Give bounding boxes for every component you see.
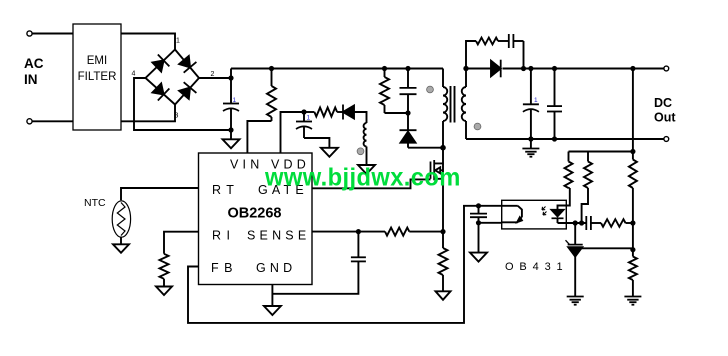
resistor R2 clamp [380,69,389,114]
svg-text:3: 3 [175,113,179,120]
wire bridge neg return [134,78,231,130]
wire D2 to aux winding [354,112,367,123]
wire opto emitter [479,222,502,224]
DC out terminal - [664,137,669,142]
U1 pin label RI [212,229,236,243]
diode D1 clamp [400,113,417,148]
node comp join [630,220,635,225]
U1 pin label RT [212,183,239,197]
U2 light arrows [542,207,547,216]
bridge pin 2 label [211,71,215,78]
wire divider riser [632,69,634,152]
label 1 (C3 pin) [307,115,311,122]
U1 pin label SENSE [247,229,310,243]
svg-text:2: 2 [211,71,215,78]
svg-text:GND: GND [256,261,296,275]
wire source down [442,179,444,232]
svg-text:O B 4 3 1: O B 4 3 1 [505,261,564,273]
node out cap1 bottom [528,136,533,141]
svg-text:www.bjjdwx.com: www.bjjdwx.com [264,164,461,192]
transistor Q1 MOSFET [431,148,444,181]
capacitor C3 vdd [296,112,312,138]
wire emitter to ground [478,223,480,253]
resistor R6 current sense [439,232,448,292]
wire clamp to drain [408,147,443,149]
wire R11 to cathode node [582,188,588,223]
U1 pin label GND [256,261,296,275]
node cathode a [573,220,578,225]
svg-text:IN: IN [24,72,38,87]
svg-text:1: 1 [307,115,311,122]
svg-text:RT: RT [212,183,239,197]
wire HV rail [231,68,443,70]
node bulk+ [228,75,233,80]
diode D2 vdd [343,105,354,120]
wire bulk node up to HV rail [230,69,232,79]
capacitor C5 snubber [509,34,524,48]
wire divider mid [632,223,634,250]
op IC U1 OB2268 box [199,153,313,285]
resistor R11 LED bleed [584,152,592,189]
DC out terminal + [664,66,669,71]
wire output return rail [466,138,664,140]
wire comp cap to R12 [591,222,601,224]
thermistor NTC [112,201,130,237]
wire snubber return [523,41,525,69]
resistor R9 lower divider [629,250,637,297]
svg-text:OB2268: OB2268 [227,206,281,222]
wire RT to NTC [121,188,199,200]
svg-text:RI: RI [212,229,236,243]
ground (aux) [358,165,375,174]
wire GND to sense cap [272,261,358,293]
T1 primary phase dot [427,86,434,93]
wire AC N to EMI [32,120,73,122]
U1 pin label FB [211,261,238,275]
AC input terminal L [27,31,32,36]
wire R1 to VIN [247,121,271,153]
node opto emitter [476,220,481,225]
wire bridge out to bulk node [199,77,231,79]
capacitor C7 output [547,69,562,140]
svg-text:DC: DC [654,96,672,110]
node opto collector [476,203,481,208]
svg-text:EMI: EMI [87,55,107,67]
node secondary top [463,66,468,71]
T1 core [451,86,455,123]
U1 pin label VIN [230,158,263,172]
resistor R5 sense series [385,228,409,236]
node clamp join [405,110,410,115]
resistor R1 startup [267,69,276,122]
node drain [440,145,446,151]
node out cap2 bottom [552,136,557,141]
wire secondary rail [503,68,664,70]
svg-text:FILTER: FILTER [78,71,117,83]
capacitor C8 opto [470,206,487,223]
svg-text:AC: AC [24,56,44,71]
wire VDD pin riser [281,112,305,153]
resistor R10 LED series [565,152,573,189]
wire aux to ground [366,147,368,166]
resistor R12 comp [601,219,633,227]
capacitor C9 comp [586,216,591,230]
node cathode b [579,220,584,225]
svg-text:4: 4 [132,71,136,78]
capacitor C1 bulk [223,80,239,131]
capacitor C6 output [523,69,539,140]
T1 aux phase dot [357,148,364,155]
wire RI [164,232,199,254]
label DC Out [654,96,676,125]
svg-text:1: 1 [534,97,538,104]
capacitor C2 clamp [400,69,417,114]
node startup tap [269,66,274,71]
watermark [264,164,461,192]
node clamp R top [382,66,387,71]
U1 name OB2268 [227,206,281,222]
resistor R3 vdd [304,108,343,117]
transformer T1 aux winding [364,123,367,147]
optocoupler U2 box [502,200,567,229]
wire opto collector [463,205,502,207]
node VDD cap top [301,109,306,114]
wire 431 ref [581,247,633,249]
EMI filter block [73,24,121,130]
resistor R7 snubber [466,38,509,69]
wire clamp RC join [385,112,409,114]
bridge diode D-c (left to bottom) [152,83,169,100]
label NTC [84,197,106,209]
node divider tap [630,149,635,154]
node out cap2 top [552,66,557,71]
svg-text:1: 1 [176,38,180,45]
svg-text:VIN: VIN [230,158,263,172]
ground (opto) [470,253,487,262]
ground (431) [567,297,584,305]
capacitor C4 sense filter [351,232,366,262]
wire SENSE [312,231,358,233]
wire NTC to ground [120,237,122,245]
transformer T1 primary winding [443,87,447,121]
ground (secondary) [522,139,539,157]
wire primary bottom to drain [442,121,444,148]
ground (bulk) [223,130,240,148]
wire R5 to source node [409,231,443,233]
svg-text:FB: FB [211,261,238,275]
ground (RI) [156,287,172,296]
svg-text:1: 1 [233,97,237,104]
diode D3 output rectifier [466,60,501,78]
label AC IN [24,56,44,87]
wire sense to R5 [358,231,385,233]
transformer T1 secondary winding [462,87,466,121]
svg-text:SENSE: SENSE [247,229,310,243]
wire LED cathode out [558,222,587,224]
ground (vdd cap) [321,148,338,157]
wire C3 to ground [304,138,329,148]
svg-text:Out: Out [654,111,676,125]
label 1 (C1 pin) [233,97,237,104]
wire R10 to LED anode [558,188,570,210]
U1 pin label GATE [258,183,308,197]
wire 431 cathode [574,223,576,245]
ground (IC GND) [264,306,281,315]
label 1 (C6 pin) [534,97,538,104]
bridge rectifier frame [146,50,200,105]
wire GATE [312,179,431,188]
node ref join [630,247,635,252]
ground (divider) [624,297,641,305]
ground (NTC) [113,244,129,253]
bridge diode D-a (left to top) [152,54,169,71]
wire EMI bottom to bridge pin3 [121,104,175,121]
node divider tap top [630,66,635,71]
node C1- [228,127,233,132]
wire AC L to EMI [32,33,73,35]
T1 secondary phase dot [474,123,481,130]
node snubber [521,66,526,71]
node sense cap [356,229,361,234]
label OB431 [505,261,564,273]
bridge pin 3 label [175,113,179,120]
wire FB loop [188,206,464,323]
bridge pin 1 label [176,38,180,45]
U1 pin label VDD [271,158,310,172]
U2 phototransistor [502,206,522,223]
bridge diode D-b (top to right) [179,56,196,73]
bridge diode D-d (bottom to right) [179,82,196,99]
wire fb tap line [569,151,633,153]
shunt regulator U3 OB431 [566,240,583,296]
U2 LED [552,210,564,223]
resistor R8 upper divider [629,152,637,224]
wire primary top [442,69,444,88]
ground (sense) [436,291,451,300]
node clamp C top [405,66,410,71]
svg-text:NTC: NTC [84,197,106,209]
node source/sense [440,229,445,234]
bridge pin 4 label [132,71,136,78]
node out cap1 [528,66,533,71]
resistor R4 (RI) [160,254,169,287]
AC input terminal N [27,119,32,124]
wire GND pin [271,285,273,307]
wire secondary bottom [465,121,467,139]
wire EMI top to bridge pin1 [121,34,175,51]
wire secondary top [465,69,467,88]
